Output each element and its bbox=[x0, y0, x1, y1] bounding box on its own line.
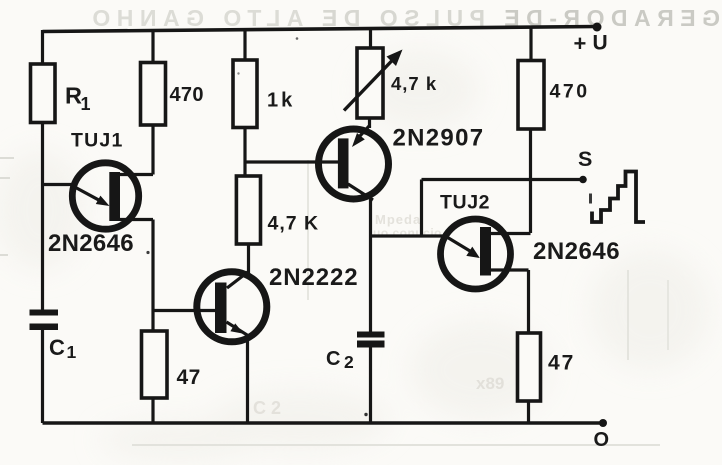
svg-text:C 2: C 2 bbox=[253, 398, 281, 418]
svg-text:C: C bbox=[326, 348, 340, 370]
svg-text:2N2222: 2N2222 bbox=[269, 264, 358, 291]
svg-text:47: 47 bbox=[548, 352, 575, 375]
svg-text:+: + bbox=[574, 31, 587, 56]
svg-text:TUJ2: TUJ2 bbox=[440, 192, 490, 214]
svg-text:470: 470 bbox=[550, 81, 590, 103]
svg-text:C: C bbox=[49, 335, 65, 360]
svg-text:TUJ1: TUJ1 bbox=[71, 130, 123, 152]
svg-text:47: 47 bbox=[177, 366, 201, 389]
svg-text:U: U bbox=[593, 32, 608, 55]
svg-text:Mpeda: Mpeda bbox=[375, 212, 421, 227]
svg-text:2N2907: 2N2907 bbox=[393, 125, 485, 152]
svg-text:2N2646: 2N2646 bbox=[533, 238, 620, 265]
svg-text:x89: x89 bbox=[476, 374, 504, 393]
svg-text:S: S bbox=[578, 147, 592, 171]
svg-text:4,7 k: 4,7 k bbox=[391, 73, 437, 94]
svg-text:2: 2 bbox=[344, 352, 354, 372]
svg-text:1: 1 bbox=[67, 342, 77, 362]
svg-text:R: R bbox=[65, 83, 82, 109]
svg-text:uo conucio: uo conucio bbox=[373, 226, 442, 240]
svg-text:4,7 K: 4,7 K bbox=[268, 213, 320, 235]
svg-text:2N2646: 2N2646 bbox=[48, 230, 134, 257]
svg-text:470: 470 bbox=[170, 84, 204, 106]
svg-text:1: 1 bbox=[81, 94, 91, 114]
svg-text:1k: 1k bbox=[267, 90, 295, 112]
svg-text:O: O bbox=[594, 429, 610, 451]
